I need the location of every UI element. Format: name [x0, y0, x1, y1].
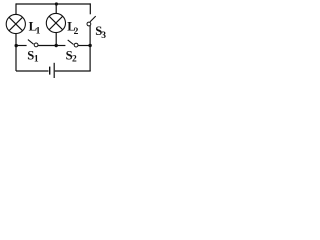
wire: left branch vertical: [15, 3, 17, 71]
svg-text:1: 1: [36, 27, 41, 37]
svg-text:3: 3: [101, 31, 106, 41]
wire: middle rail from S1 to L2 junction: [38, 45, 56, 47]
switch S3: [87, 16, 96, 26]
svg-text:1: 1: [34, 55, 39, 65]
wire: L2 branch vertical: [55, 4, 57, 46]
label S2: [66, 49, 77, 65]
wire: bottom rail right segment: [55, 70, 91, 72]
node: junction dot L2 branch / middle rail: [55, 44, 58, 47]
svg-text:2: 2: [74, 27, 79, 37]
battery: long plate (positive): [53, 63, 55, 78]
wire: middle rail from L2 junction to S2: [56, 45, 65, 47]
wire: middle rail from left junction to S1: [16, 45, 27, 47]
wire: bottom rail left segment: [16, 70, 49, 72]
switch S2: [68, 40, 78, 47]
switch S1: [28, 40, 38, 47]
battery: short plate (negative): [49, 67, 51, 75]
node: junction dot right branch / middle rail: [88, 44, 91, 47]
label L1: [29, 19, 41, 36]
wire: right branch lower vertical: [89, 26, 91, 71]
wire: right branch upper vertical: [89, 3, 91, 14]
svg-text:2: 2: [72, 55, 77, 65]
label L2: [67, 19, 78, 37]
node: junction dot top rail / L2 branch: [55, 2, 58, 5]
lamp L2: [46, 13, 65, 32]
node: junction dot left branch / middle rail: [15, 44, 18, 47]
label S1: [27, 49, 39, 65]
lamp L1: [6, 14, 25, 33]
wire: top rail: [16, 3, 91, 5]
wire: middle rail from S2 to right junction: [78, 45, 90, 47]
label S3: [95, 24, 106, 41]
